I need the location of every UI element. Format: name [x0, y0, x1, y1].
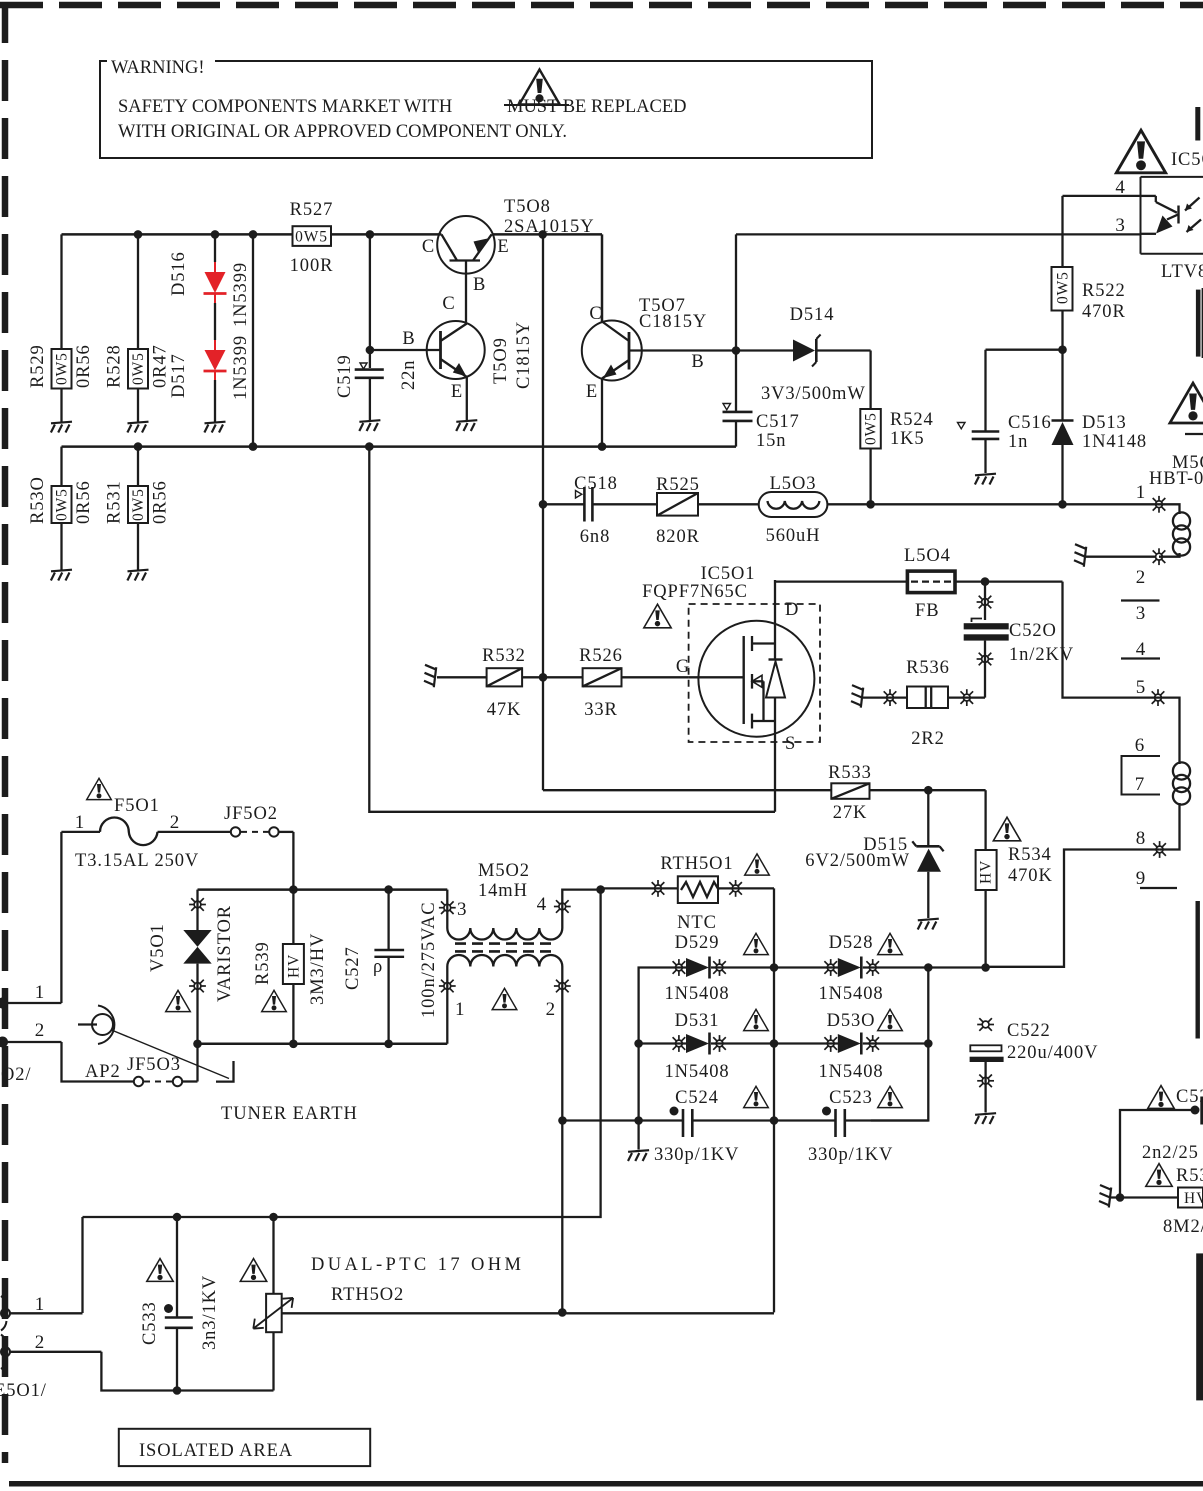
svg-text:WITH ORIGINAL OR APPROVED COMP: WITH ORIGINAL OR APPROVED COMPONENT ONLY… [118, 122, 567, 142]
svg-text:1N4148: 1N4148 [1082, 432, 1147, 452]
warning triangle F5O1 [87, 778, 112, 799]
capacitor C522 [970, 1018, 1099, 1112]
svg-text:M5O2: M5O2 [478, 861, 530, 881]
ground (T5O9 E) [456, 420, 477, 431]
jumper JF5O2 [224, 804, 293, 837]
svg-text:1n: 1n [1008, 432, 1028, 452]
transformer pin 3 stub [1121, 599, 1160, 601]
ground (C522) [975, 1113, 996, 1124]
svg-text:0W5: 0W5 [54, 352, 71, 385]
warning triangle M5 [1170, 383, 1203, 423]
wire x=600 column down [83, 890, 601, 1217]
wire drive node to R533 line [543, 789, 831, 791]
resistor R528 [105, 234, 171, 422]
svg-text:0R56: 0R56 [74, 344, 94, 388]
wire rect output to pin 8 [986, 850, 1160, 967]
svg-text:100R: 100R [290, 256, 334, 276]
capacitor C518 [543, 474, 657, 547]
diode D515 zener [805, 790, 943, 918]
warning triangle RTH5O2 [240, 1259, 266, 1282]
svg-text:C522: C522 [1007, 1021, 1051, 1041]
svg-text:G: G [676, 657, 690, 677]
svg-text:1N5399: 1N5399 [231, 262, 251, 327]
resistor R539 HV [253, 890, 328, 1044]
svg-text:1n/2KV: 1n/2KV [1009, 645, 1074, 665]
svg-text:1N5408: 1N5408 [664, 984, 729, 1004]
svg-text:FB: FB [915, 601, 939, 621]
svg-text:C518: C518 [574, 474, 618, 494]
warning triangle R534 [993, 817, 1020, 841]
node dots on 1217 line [173, 1213, 182, 1222]
warning triangle D531 [744, 1009, 769, 1030]
inductor L5O3 [759, 474, 871, 546]
svg-text:R53O: R53O [28, 476, 48, 524]
wire FB node down to pin5 [1063, 582, 1159, 698]
svg-text:6n8: 6n8 [580, 527, 610, 547]
svg-text:SAFETY COMPONENTS MARKET WITH: SAFETY COMPONENTS MARKET WITH [118, 97, 452, 117]
resistor R532 [437, 646, 543, 720]
svg-text:WARNING!: WARNING! [111, 58, 205, 78]
svg-text:22n: 22n [399, 360, 419, 390]
transistor T5O9 [370, 294, 534, 420]
svg-text:T5O8: T5O8 [504, 197, 551, 217]
svg-text:1N5408: 1N5408 [818, 1062, 883, 1082]
node dot ground stub [634, 1116, 643, 1125]
svg-text:0W5: 0W5 [863, 412, 880, 445]
node dot C518 tap [539, 500, 548, 509]
transistor T5O7 [582, 296, 736, 447]
svg-text:1: 1 [455, 999, 465, 1020]
svg-text:15n: 15n [756, 431, 786, 451]
choke M5O2 pin2 [561, 967, 563, 1121]
node dot RTH5O2 tap [558, 1308, 567, 1317]
node dot C52O top [981, 577, 990, 586]
svg-text:2SA1015Y: 2SA1015Y [504, 217, 594, 237]
svg-text:1K5: 1K5 [890, 429, 925, 449]
svg-text:LTV8: LTV8 [1161, 262, 1203, 282]
svg-text:C523: C523 [829, 1088, 873, 1108]
svg-text:NTC: NTC [677, 913, 717, 933]
svg-text:R522: R522 [1082, 281, 1126, 301]
svg-text:IC5O1: IC5O1 [701, 564, 756, 584]
wire T5O8 E to T5O7 C [601, 234, 604, 321]
resistor R534 HV [976, 790, 1053, 967]
core bar 2 [1196, 290, 1201, 357]
svg-text:HV: HV [978, 860, 995, 884]
node dot tie bottom [249, 442, 258, 451]
wire pin2 to C533 bottom [101, 1352, 273, 1391]
svg-text:8: 8 [1136, 828, 1146, 849]
resistor R525 [656, 475, 759, 547]
svg-text:JF5O2: JF5O2 [224, 804, 278, 824]
node dot bus x=369.3 [365, 442, 374, 451]
svg-text:3: 3 [457, 899, 467, 920]
capacitor C524 [563, 1088, 775, 1165]
svg-text:470R: 470R [1082, 302, 1126, 322]
svg-text:2: 2 [35, 1020, 45, 1041]
stub line right edge [1185, 433, 1203, 435]
diode D516 (red) [169, 234, 251, 327]
svg-text:RTH5O1: RTH5O1 [660, 854, 733, 874]
svg-text:R533: R533 [828, 763, 872, 783]
svg-text:E: E [497, 237, 509, 257]
svg-text:D516: D516 [169, 251, 189, 296]
svg-text:TUNER EARTH: TUNER EARTH [221, 1104, 358, 1124]
diode D528 [774, 933, 986, 1004]
svg-text:C1815Y: C1815Y [639, 312, 707, 332]
warning triangle FQPF [644, 604, 671, 628]
svg-text:0W5: 0W5 [130, 352, 147, 385]
transformer pins 6-7 bracket [1122, 735, 1161, 795]
svg-text:D531: D531 [675, 1011, 720, 1031]
svg-text:C525: C525 [1176, 1087, 1203, 1107]
thermistor RTH5O1 [601, 854, 774, 933]
diode D514 zener [736, 305, 871, 404]
svg-text:D53O: D53O [827, 1011, 876, 1031]
op-amp: MOSFET IC5O1 [676, 580, 815, 812]
svg-text:0W5: 0W5 [54, 488, 71, 521]
resistor R529 [28, 234, 94, 422]
ground (R536) [851, 685, 863, 708]
jumper JF5O3 [127, 1055, 198, 1086]
capacitor C525 (cut at edge) [1120, 1087, 1203, 1166]
warning triangle C525 [1148, 1086, 1174, 1109]
wire pin2 to JF5O3 [62, 1042, 134, 1082]
tuner earth bracket [216, 1061, 358, 1124]
wire bridge mid column x=928 [871, 968, 929, 1121]
svg-text:4: 4 [537, 894, 547, 915]
svg-text:100n/275VAC: 100n/275VAC [419, 902, 439, 1018]
svg-text:1: 1 [35, 982, 45, 1003]
svg-text:0W5: 0W5 [295, 229, 328, 246]
page border top dashed [0, 2, 1203, 9]
node dot D516 top [211, 230, 220, 239]
choke M5O2 core [455, 942, 556, 945]
ground (R53) [1099, 1185, 1111, 1208]
svg-text:V5O1: V5O1 [148, 923, 168, 972]
svg-text:HV: HV [1184, 1190, 1203, 1207]
choke M5O2 bottom winding [447, 955, 562, 967]
svg-text:14mH: 14mH [478, 881, 528, 901]
svg-text:C524: C524 [675, 1088, 719, 1108]
node dots x=774 [770, 963, 779, 972]
svg-text:R534: R534 [1008, 845, 1052, 865]
wire JF5O2 down to bus [292, 832, 294, 890]
svg-text:1: 1 [75, 812, 85, 833]
svg-text:3n3/1KV: 3n3/1KV [200, 1275, 220, 1350]
inductor L5O4 ferrite bead [775, 546, 1063, 621]
node dot R539 top [289, 885, 298, 894]
svg-text:6: 6 [1135, 735, 1145, 756]
wire pin1 bottom connector riser [81, 1217, 83, 1313]
wire long to opto pin3 [736, 233, 1141, 235]
svg-text:2: 2 [1136, 567, 1146, 588]
connector AP1 pin2 [0, 1020, 62, 1048]
core bar 3 [1196, 901, 1200, 1039]
warning triangle C523 [878, 1086, 903, 1107]
svg-text:D514: D514 [790, 305, 835, 325]
svg-text:O2/: O2/ [1, 1065, 31, 1085]
svg-text:ρ: ρ [373, 957, 383, 977]
ground (C516) [975, 474, 996, 485]
svg-text:D: D [785, 600, 799, 620]
svg-text:2n2/25: 2n2/25 [1142, 1143, 1199, 1163]
node dot T5O7 base junction [732, 346, 741, 355]
svg-text:R532: R532 [482, 646, 526, 666]
node dot T5O8 emitter junction [538, 230, 547, 239]
node dot D515 top [924, 786, 933, 795]
wire AC top bus [198, 888, 448, 891]
svg-text:2R2: 2R2 [911, 729, 945, 749]
warning triangle C533 [147, 1259, 173, 1282]
resistor R531 [105, 447, 171, 570]
node dot R524 bottom [866, 500, 875, 509]
svg-text:L5O3: L5O3 [770, 474, 817, 494]
choke M5O2 pin3 [446, 890, 448, 928]
svg-text:R526: R526 [579, 646, 623, 666]
warning triangle D53O [878, 1009, 903, 1030]
capacitor C519 [335, 354, 419, 420]
node dot bus x=138 [134, 442, 143, 451]
choke M5O2 pin1 [446, 967, 448, 1044]
svg-text:330p/1KV: 330p/1KV [654, 1145, 739, 1165]
svg-text:C: C [589, 304, 602, 324]
svg-text:RTH5O2: RTH5O2 [331, 1285, 404, 1305]
wire bridge left column [637, 1044, 639, 1121]
node dot RTH5O1 feed [596, 885, 605, 894]
warning triangle R539 [262, 990, 287, 1011]
diode D513 [1052, 350, 1148, 505]
ground (D517) [204, 422, 225, 433]
svg-text:FQPF7N65C: FQPF7N65C [642, 582, 748, 602]
svg-text:820R: 820R [656, 527, 700, 547]
svg-text:S: S [785, 734, 796, 754]
warning triangle V5O1 [166, 990, 191, 1011]
resistor R526 [543, 646, 689, 720]
node dot C524 left [558, 1116, 567, 1125]
choke M5O2 top winding [447, 928, 562, 940]
ground (R528) [127, 422, 148, 433]
capacitor C516 [958, 350, 1052, 473]
svg-text:47K: 47K [487, 700, 522, 720]
svg-text:R527: R527 [290, 200, 334, 220]
svg-text:D517: D517 [169, 353, 189, 398]
connector E5O1 pin1 [1, 1294, 83, 1331]
resistor R533 [828, 763, 985, 823]
capacitor C52O [964, 582, 1074, 698]
capacitor C517 [723, 351, 800, 452]
svg-text:C: C [422, 237, 435, 257]
svg-text:DUAL-PTC 17 OHM: DUAL-PTC 17 OHM [311, 1255, 524, 1275]
svg-text:VARISTOR: VARISTOR [215, 905, 235, 1002]
page border left dashed [2, 2, 9, 1463]
fuse F5O1 [61, 796, 230, 871]
svg-text:7: 7 [1135, 774, 1145, 795]
svg-text:27K: 27K [833, 803, 868, 823]
svg-text:R524: R524 [890, 410, 934, 430]
svg-text:0R47: 0R47 [151, 344, 171, 388]
wire AC bottom bus [198, 1043, 448, 1046]
svg-text:1N5399: 1N5399 [231, 335, 251, 400]
svg-text:1N5408: 1N5408 [818, 984, 883, 1004]
wire bridge right column x=774 [773, 888, 775, 1312]
node dot R522/D513 [1058, 345, 1067, 354]
opto-coupler IC5 (LTV8..) [1115, 177, 1203, 282]
svg-text:T3.15AL 250V: T3.15AL 250V [75, 851, 199, 871]
svg-text:D528: D528 [829, 933, 874, 953]
node dot tie top [249, 230, 258, 239]
svg-text:C52O: C52O [1009, 621, 1057, 641]
ground (R53O) [51, 570, 72, 581]
svg-text:C519: C519 [335, 354, 355, 398]
isolated area box [119, 1429, 370, 1466]
node dot C519 column top [366, 230, 375, 239]
page border bottom solid [9, 1481, 1203, 1487]
svg-text:2: 2 [170, 812, 180, 833]
svg-text:R529: R529 [28, 344, 48, 388]
svg-text:HV: HV [285, 954, 302, 978]
svg-text:1: 1 [35, 1294, 45, 1315]
wire pin2 down to RTH5O2 node [561, 1121, 563, 1313]
svg-text:JF5O3: JF5O3 [127, 1055, 181, 1075]
diode D531 [639, 1011, 774, 1082]
thermistor RTH5O2 dual PTC [253, 1217, 562, 1391]
svg-text:1: 1 [1136, 482, 1146, 503]
svg-text:5: 5 [1136, 677, 1146, 698]
svg-text:3: 3 [1136, 603, 1146, 624]
diode D529 [639, 933, 774, 1044]
node dot gate drive [539, 673, 548, 682]
core bar 4 [1196, 1253, 1203, 1400]
svg-text:0R56: 0R56 [151, 480, 171, 524]
svg-text:T5O9: T5O9 [491, 337, 511, 384]
resistor R524 [860, 351, 933, 505]
svg-text:560uH: 560uH [766, 526, 821, 546]
wire base node up to opto line [735, 234, 737, 350]
svg-text:B: B [691, 352, 704, 372]
svg-text:33R: 33R [584, 700, 618, 720]
svg-text:C517: C517 [756, 412, 800, 432]
antenna AP2 [78, 1006, 229, 1083]
svg-text:8M2/: 8M2/ [1163, 1217, 1203, 1237]
wire gate-drive vertical x=543 [542, 234, 544, 790]
svg-text:9: 9 [1136, 868, 1146, 889]
svg-text:C1815Y: C1815Y [514, 321, 534, 389]
warning triangle M5O2 [492, 988, 517, 1009]
svg-text:C527: C527 [343, 946, 363, 990]
svg-text:R53: R53 [1176, 1166, 1203, 1186]
svg-text:2: 2 [35, 1332, 45, 1353]
svg-text:6V2/500mW: 6V2/500mW [805, 851, 910, 871]
warning triangle R53 [1146, 1164, 1172, 1187]
svg-text:C533: C533 [140, 1301, 160, 1345]
resistor R53O [28, 447, 94, 570]
wire tap to bridge column [562, 1312, 774, 1314]
resistor R536 [863, 658, 985, 749]
node dot R528 top [134, 230, 143, 239]
svg-text:IC5O2: IC5O2 [1171, 150, 1203, 170]
svg-text:B: B [402, 329, 415, 349]
wire C519 column [369, 234, 371, 368]
ground (D515) [918, 919, 939, 930]
svg-text:330p/1KV: 330p/1KV [808, 1145, 893, 1165]
svg-text:1N5408: 1N5408 [664, 1062, 729, 1082]
svg-text:3M3/HV: 3M3/HV [308, 933, 328, 1005]
resistor R527 [290, 200, 334, 276]
svg-text:D513: D513 [1082, 413, 1127, 433]
svg-text:B: B [473, 275, 486, 295]
svg-text:0W5: 0W5 [130, 488, 147, 521]
wire to transformer pin1 [871, 503, 1159, 505]
svg-text:C: C [442, 294, 455, 314]
warning triangle D528 [878, 933, 903, 954]
svg-text:F5O1: F5O1 [114, 796, 160, 816]
resistor R53 HV (cut at edge) [1111, 1166, 1203, 1237]
svg-text:E: E [451, 382, 463, 402]
ground (R529) [51, 422, 72, 433]
capacitor C527 [343, 890, 439, 1044]
diode D517 (red) [169, 303, 251, 422]
wire top bus y=234.4 [62, 233, 293, 236]
warning triangle C524 [744, 1086, 769, 1107]
connector E5O1 pin2 [1, 1332, 101, 1369]
wire bus tie x=253 [252, 234, 254, 446]
svg-text:3V3/500mW: 3V3/500mW [761, 384, 866, 404]
node dot C527 top [384, 885, 393, 894]
svg-text:C516: C516 [1008, 413, 1052, 433]
warning box [100, 58, 872, 158]
node dot bus x=600 (T5O7 E) [598, 442, 607, 451]
svg-text:3: 3 [1115, 215, 1125, 236]
svg-text:MUST BE REPLACED: MUST BE REPLACED [507, 97, 687, 117]
transformer winding pins 5-8 [1158, 698, 1190, 850]
svg-text:0R56: 0R56 [74, 480, 94, 524]
ground (pin2) [1074, 544, 1086, 567]
wire varistor stub to JF5O3 [196, 1044, 198, 1082]
wire bottom bus y=446.6 [62, 445, 737, 448]
transformer M5 pin 2 [1153, 548, 1166, 565]
svg-text:E: E [586, 382, 598, 402]
capacitor C523 [774, 1088, 928, 1165]
choke M5O2 pin4 [562, 890, 600, 928]
diode D53O [774, 1011, 928, 1082]
warning triangle IC5 [1116, 130, 1165, 173]
svg-text:R525: R525 [656, 475, 700, 495]
MOSFET IC5O1 dashed box [689, 604, 820, 742]
varistor V5O1 [148, 890, 235, 1044]
node dots output row [924, 963, 933, 972]
resistor R522 [1052, 196, 1141, 350]
svg-text:4: 4 [1136, 639, 1146, 660]
svg-text:220u/400V: 220u/400V [1007, 1043, 1098, 1063]
svg-text:R531: R531 [105, 480, 125, 524]
svg-text:E5O1/: E5O1/ [0, 1381, 47, 1401]
wire pin2 to ground [1085, 556, 1156, 558]
node dot T5O9 base [366, 346, 375, 355]
node dot D513 bottom [1058, 500, 1067, 509]
ground (C519) [359, 420, 380, 431]
svg-text:0W5: 0W5 [1055, 271, 1072, 304]
svg-text:470K: 470K [1008, 866, 1053, 886]
wire pin1 to fuse [60, 832, 62, 1003]
svg-text:R539: R539 [253, 941, 273, 985]
svg-text:ISOLATED AREA: ISOLATED AREA [139, 1441, 293, 1461]
ground (bridge left) [637, 1121, 639, 1150]
svg-text:D529: D529 [675, 933, 720, 953]
ground (R532) [424, 665, 436, 688]
ground (R531) [127, 570, 148, 581]
capacitor C533 [140, 1217, 220, 1395]
